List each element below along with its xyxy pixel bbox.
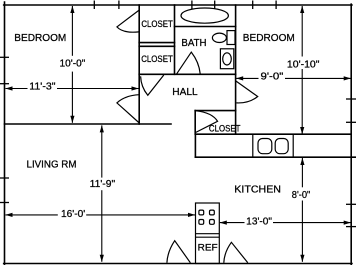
svg-text:KITCHEN: KITCHEN [234, 185, 281, 196]
window tick right 1 [346, 98, 356, 100]
door bath [177, 52, 201, 74]
wall outer right [350, 4, 352, 264]
text bg 10-10 [285, 57, 321, 70]
svg-text:10'-10": 10'-10" [287, 60, 320, 71]
svg-text:16'-0': 16'-0' [61, 209, 85, 220]
text bg 11-9 [89, 178, 119, 191]
sink box right line [292, 134, 294, 157]
kitchen sink bowl right [275, 139, 288, 154]
text bg 8-0 [291, 187, 313, 200]
wall hall bottom / living top [5, 123, 172, 125]
text bg 10-0 [58, 56, 88, 72]
svg-text:CLOSET: CLOSET [209, 124, 241, 134]
arrow 11-9 down [100, 255, 104, 262]
toilet bowl [223, 53, 232, 65]
door hall closet3 [196, 111, 218, 133]
arrow 10-0 up [70, 6, 74, 13]
svg-text:HALL: HALL [172, 87, 198, 98]
burner 2 [210, 210, 215, 215]
svg-text:BEDROOM: BEDROOM [243, 33, 295, 44]
tub bottom edge [175, 26, 236, 28]
bathtub ellipse [181, 8, 228, 23]
burner 4 [210, 220, 215, 225]
svg-text:BATH: BATH [181, 38, 206, 49]
wall outer bottom [4, 263, 352, 265]
arrow 11-9 up [100, 125, 104, 132]
arrow 10-0 down [70, 116, 74, 123]
window tick top 5 [252, 1, 254, 10]
text bg 13-0 [245, 216, 274, 227]
burner 3 [199, 220, 204, 225]
wall bedroom1 right [138, 5, 140, 124]
window tick left 4 [0, 202, 9, 204]
kitchen sink bowl left [258, 139, 272, 154]
window tick right 2 [346, 121, 356, 123]
wall closet column right [174, 5, 176, 74]
sink box left line [252, 134, 254, 157]
arrow 11-3 right [132, 86, 139, 90]
wall hall closet left [194, 111, 196, 135]
svg-text:13'-0": 13'-0" [246, 217, 272, 228]
dim line 13-0 horizontal [220, 222, 351, 224]
toilet tank [220, 49, 233, 69]
wall closet divider lower [139, 45, 174, 47]
text bg 16-0 [58, 208, 86, 218]
counter left edge [194, 134, 196, 157]
svg-text:11'-3": 11'-3" [29, 81, 56, 92]
arrow 13-0 right [344, 221, 351, 225]
window tick right 3 [346, 203, 356, 205]
arrow 10-10 down [300, 127, 304, 134]
door kitchen left [167, 241, 191, 263]
wall hall top / bath bottom [139, 73, 235, 75]
dim line 11-3 horizontal [6, 88, 139, 90]
wall outer left [4, 2, 6, 264]
window tick left 3 [0, 177, 9, 179]
svg-text:CLOSET: CLOSET [141, 54, 173, 64]
door kitchen right [224, 242, 248, 262]
svg-text:11'-9": 11'-9" [90, 179, 116, 190]
burner 1 [199, 210, 204, 215]
window tick top 1 [93, 1, 95, 10]
door bedroom1 entry [117, 95, 139, 123]
stove bottom line [196, 233, 220, 235]
door bedroom1 closet [117, 10, 139, 32]
counter top edge [195, 133, 351, 135]
dim line 11-9 vertical [101, 125, 103, 261]
dim line 9-0 horizontal [236, 77, 351, 79]
window tick right 4 [346, 226, 356, 228]
window tick top 3 [191, 1, 193, 10]
arrow 8-0 up [300, 158, 304, 165]
arrow 10-10 up [300, 6, 304, 13]
door bedroom2 entry [236, 81, 258, 103]
window tick left 2 [0, 83, 9, 85]
arrow 16-0 left [5, 213, 12, 217]
arrow 9-0 right [344, 76, 351, 80]
counter bottom edge [195, 156, 356, 158]
svg-text:REF: REF [198, 242, 218, 253]
arrow 9-0 left [236, 76, 243, 80]
wall bath bedroom2 [235, 5, 237, 134]
svg-text:LIVING RM: LIVING RM [27, 159, 77, 170]
door hall closet2 [141, 75, 164, 95]
arrow 16-0 right [188, 213, 195, 217]
dim line 8-0 vertical [301, 158, 303, 262]
wall outer top [4, 4, 352, 6]
arrow 8-0 down [300, 255, 304, 262]
text bg 11-3 [28, 81, 58, 91]
svg-text:8'-0": 8'-0" [292, 190, 311, 201]
text bg 9-0 [259, 72, 286, 82]
window tick top 2 [118, 1, 120, 10]
wall hall closet top [195, 110, 235, 112]
dim line 16-0 horizontal [6, 214, 196, 216]
window tick top 6 [275, 1, 277, 10]
svg-text:9'-0": 9'-0" [261, 72, 284, 83]
arrow 11-3 left [5, 86, 12, 90]
svg-text:10'-0": 10'-0" [60, 59, 86, 70]
svg-text:BEDROOM: BEDROOM [14, 33, 66, 44]
wall closet divider upper [139, 42, 174, 44]
stove and refrigerator column [196, 203, 220, 264]
window tick top 4 [214, 1, 216, 10]
dim line 10-0 vertical [71, 6, 73, 123]
window tick left 1 [0, 56, 9, 58]
refrigerator top line [196, 236, 220, 238]
dim line 10-10 vertical [301, 6, 303, 134]
arrow 13-0 left [220, 221, 227, 225]
lavatory bowl [212, 33, 226, 42]
svg-text:CLOSET: CLOSET [141, 19, 173, 29]
lavatory tank [227, 31, 235, 45]
